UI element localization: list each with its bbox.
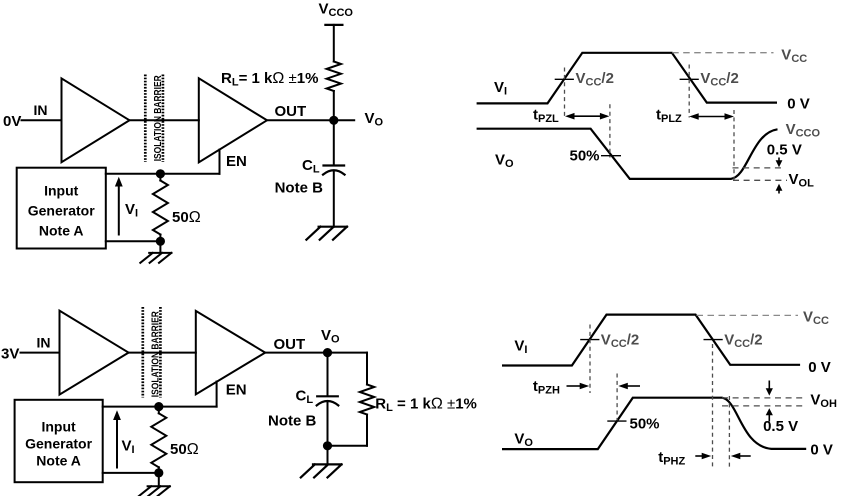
wire RL to node: [333, 91, 335, 120]
waveform VI: [477, 53, 777, 104]
dashed level VOL: [733, 179, 787, 181]
wire to ground: [327, 446, 329, 465]
dashed level VOH: [722, 397, 806, 399]
svg-text:0 V: 0 V: [787, 95, 810, 112]
svg-text:0 V: 0 V: [810, 442, 833, 459]
wire input: [22, 119, 62, 121]
isolation barrier: [143, 307, 161, 398]
svg-text:0V: 0V: [3, 113, 21, 130]
wire U3 to U4: [129, 352, 196, 354]
input generator box: [17, 168, 106, 249]
svg-text:50%: 50%: [570, 148, 600, 165]
wire CL to bottom node: [327, 401, 329, 446]
arrow up to VOH-0.5 line: [768, 415, 770, 422]
tick VCC/2 falling: [680, 78, 699, 80]
tPZH arrow left: [625, 385, 640, 387]
svg-text:50Ω: 50Ω: [170, 441, 199, 458]
svg-text:Input: Input: [41, 418, 76, 434]
buffer U4: [196, 311, 265, 394]
wire output: [265, 352, 367, 354]
capacitor CL: [317, 395, 338, 397]
input generator box: [15, 400, 103, 482]
pin EN wire: [216, 382, 218, 407]
arrow up to VOL line: [778, 190, 780, 194]
tPZH arrow right: [567, 385, 583, 387]
wire RL bottom to node: [328, 445, 368, 447]
svg-text:Note B: Note B: [275, 180, 324, 197]
wire input: [21, 352, 60, 354]
dashed cursor v1: [589, 325, 591, 394]
wire box to EN: [103, 406, 217, 408]
svg-text:Input: Input: [44, 183, 79, 199]
tPZL arrow: [568, 115, 607, 117]
waveform VO: [477, 129, 778, 179]
svg-text:IN: IN: [34, 102, 48, 118]
ground (under CL): [306, 227, 347, 240]
junction node VO: [323, 348, 332, 357]
buffer U3: [60, 311, 129, 395]
wire node to CL: [327, 353, 329, 396]
tick 50%: [607, 420, 626, 422]
junction node ground: [156, 237, 165, 246]
dashed level VCC: [672, 52, 773, 54]
wire to ground: [159, 241, 161, 253]
svg-text:ISOLATION BARRIER: ISOLATION BARRIER: [152, 75, 164, 161]
VI arrow: [118, 184, 120, 235]
ground (under 50 ohm): [140, 253, 171, 263]
resistor RL: [327, 62, 341, 92]
dashed cursor v4: [733, 110, 735, 180]
tPLZ arrow: [692, 116, 732, 118]
svg-text:IN: IN: [37, 334, 51, 350]
wire U1 to U2: [130, 119, 199, 121]
svg-text:OUT: OUT: [274, 336, 306, 353]
junction node bottom: [323, 441, 332, 450]
svg-text:Note B: Note B: [268, 413, 317, 430]
resistor RL branch: [366, 353, 368, 385]
wire output: [267, 119, 354, 121]
tick VCC/2 rising: [555, 78, 574, 80]
svg-text:EN: EN: [226, 382, 247, 399]
svg-text:50Ω: 50Ω: [172, 209, 201, 226]
ground (under 50 ohm, clipped): [139, 486, 170, 496]
junction node EN net: [154, 402, 163, 411]
tPHZ arrow left: [738, 455, 751, 457]
tPHZ arrow right: [695, 455, 703, 457]
svg-text:0.5 V: 0.5 V: [763, 418, 798, 435]
wire to ground: [158, 473, 160, 486]
dashed level VOL+0.5: [733, 167, 785, 169]
waveform VO: [502, 398, 806, 449]
svg-text:OUT: OUT: [275, 103, 307, 120]
svg-text:0 V: 0 V: [808, 359, 831, 376]
junction node VO: [329, 116, 338, 125]
tick VCC/2 falling: [704, 339, 723, 341]
junction node ground: [154, 468, 163, 477]
svg-text:Generator: Generator: [28, 203, 95, 219]
tick 50%: [601, 155, 621, 157]
wire CL to ground: [333, 171, 335, 227]
svg-text:0.5 V: 0.5 V: [767, 142, 802, 159]
isolation barrier: [145, 75, 163, 163]
dashed level VOH-0.5: [722, 405, 806, 407]
buffer U1: [62, 78, 130, 162]
svg-text:EN: EN: [226, 153, 247, 170]
wire rail down: [333, 25, 335, 62]
VI arrow: [116, 418, 118, 468]
waveform VI: [502, 315, 800, 366]
resistor R 50: [158, 407, 160, 414]
tick VCC/2 rising: [580, 339, 599, 341]
wire node to CL: [333, 120, 335, 165]
buffer U2: [199, 78, 267, 162]
resistor R 50: [159, 174, 161, 181]
dashed cursor v4: [728, 396, 730, 469]
dashed level VCC: [697, 314, 799, 316]
ground (under CL/RL): [301, 464, 342, 477]
dashed cursor v2: [616, 374, 618, 423]
svg-text:Generator: Generator: [25, 435, 92, 451]
svg-text:3V: 3V: [1, 346, 19, 363]
power VCCO rail bar: [325, 24, 342, 26]
dashed cursor v2: [609, 104, 611, 157]
wire box bottom to ground node: [106, 240, 161, 242]
svg-text:ISOLATION BARRIER: ISOLATION BARRIER: [149, 311, 161, 397]
wire box to EN: [106, 173, 220, 175]
svg-text:Note A: Note A: [39, 223, 84, 239]
pin EN wire: [219, 150, 221, 174]
svg-text:50%: 50%: [630, 416, 660, 433]
dashed cursor v3: [712, 344, 714, 469]
junction node EN net: [156, 169, 165, 178]
svg-text:Note A: Note A: [36, 453, 81, 469]
dashed cursor v1: [564, 68, 566, 118]
arrow down to 0.5V line: [778, 158, 780, 162]
wire box bottom to ground node: [103, 472, 159, 474]
dashed cursor v3: [688, 65, 690, 118]
capacitor CL: [324, 164, 345, 166]
arrow down to VOH line: [768, 381, 770, 390]
